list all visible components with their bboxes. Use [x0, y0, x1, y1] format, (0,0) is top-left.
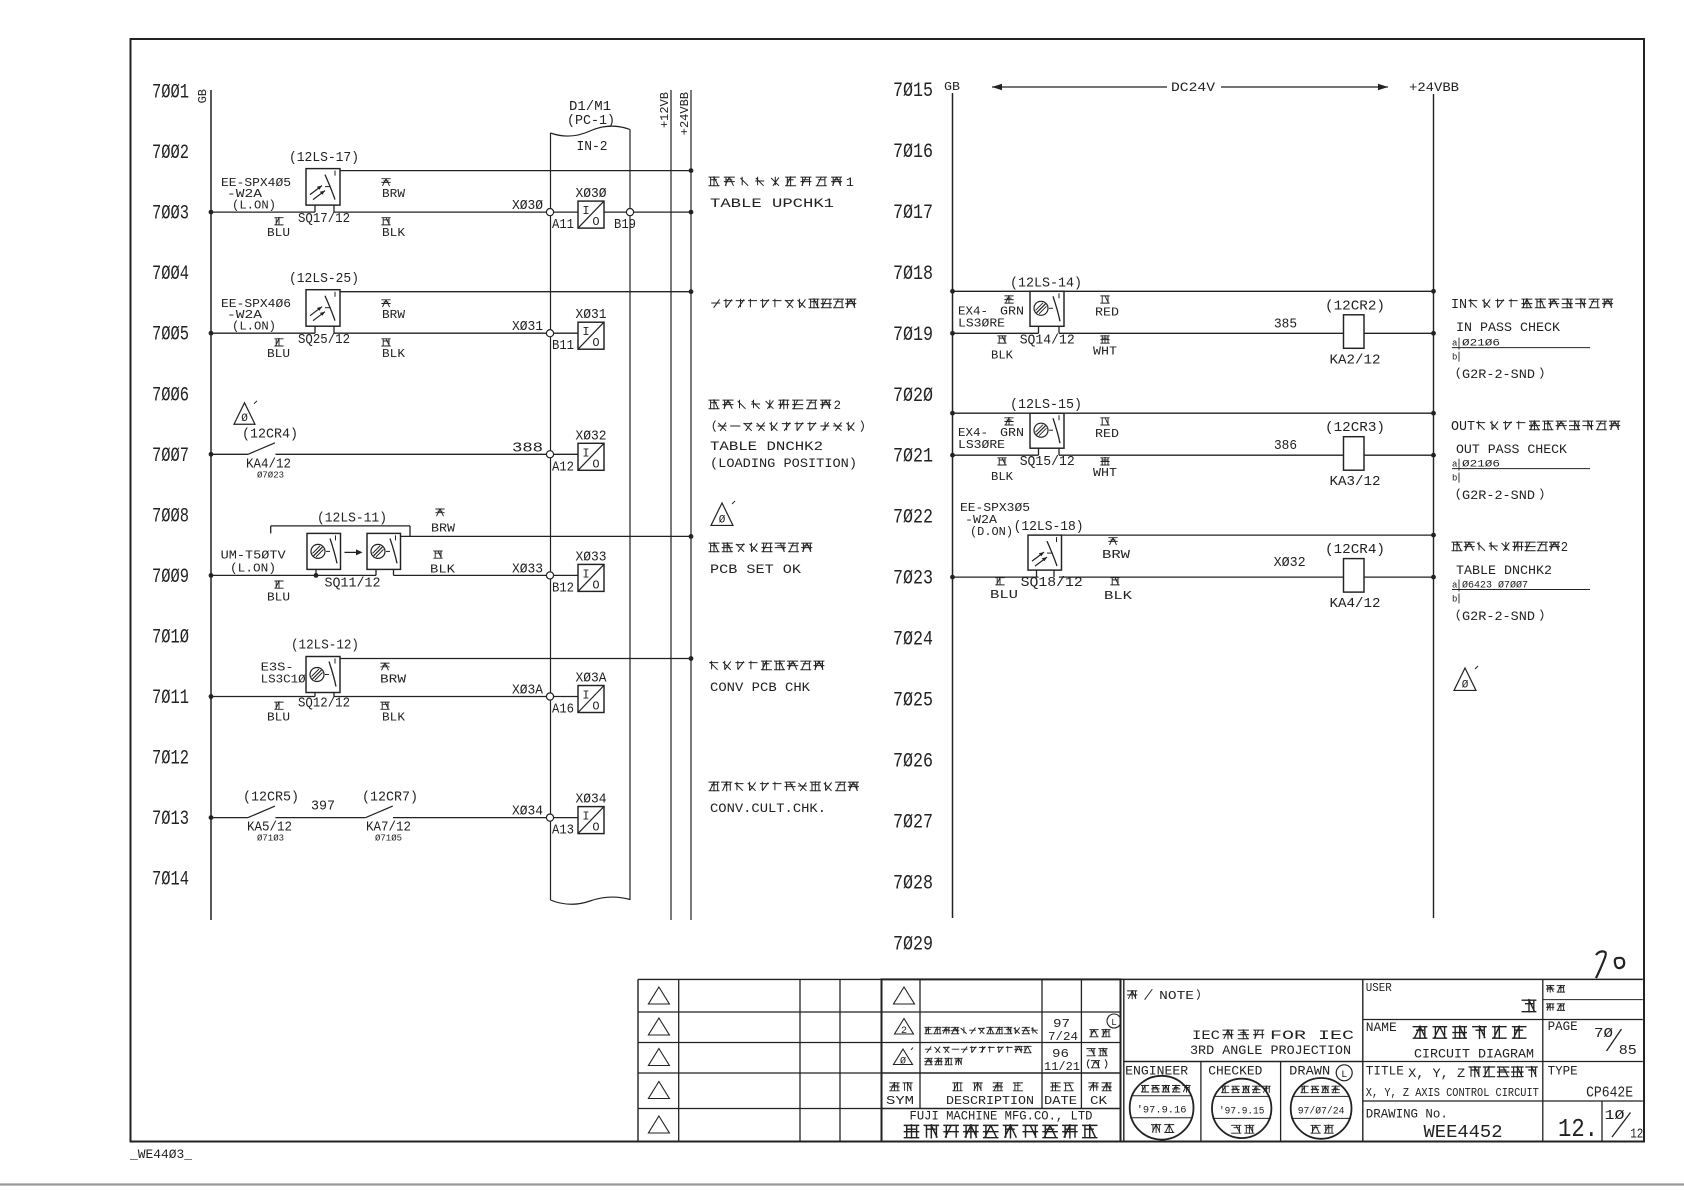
svg-text:(12LS-14): (12LS-14)	[1010, 276, 1082, 291]
svg-text:G2R-2-SND: G2R-2-SND	[1462, 368, 1535, 382]
svg-text:85: 85	[1619, 1043, 1637, 1059]
svg-text:b: b	[1452, 353, 1457, 363]
svg-text:XØ34: XØ34	[576, 793, 607, 808]
svg-text:A16: A16	[552, 703, 574, 718]
rung 7023 upper branch wire	[1062, 534, 1434, 536]
svg-text:XØ31: XØ31	[576, 308, 607, 323]
svg-text:BLU: BLU	[990, 588, 1018, 602]
relay contact 12CR7 KA7/12	[366, 806, 393, 818]
svg-text:G2R-2-SND: G2R-2-SND	[1462, 610, 1535, 624]
svg-text:7Ø15: 7Ø15	[893, 80, 933, 103]
engineer/checked/drawn row	[1200, 1062, 1202, 1142]
svg-text:2: 2	[901, 1026, 907, 1037]
svg-text:7Ø22: 7Ø22	[893, 507, 933, 530]
svg-text:7Ø28: 7Ø28	[893, 872, 933, 895]
svg-text:CP642E: CP642E	[1586, 1086, 1633, 1102]
svg-text:7ØØ1: 7ØØ1	[152, 82, 189, 105]
svg-text:XØ32: XØ32	[576, 429, 607, 444]
svg-text:BRW: BRW	[382, 308, 406, 322]
svg-text:BRW: BRW	[382, 187, 406, 201]
revision table right (SYM/DESCRIPTION)	[882, 979, 1121, 1141]
svg-text:96: 96	[1052, 1047, 1069, 1061]
rung 7011 wire	[209, 694, 214, 699]
svg-text:7Ø25: 7Ø25	[893, 690, 933, 713]
svg-text:'97.9.15: '97.9.15	[1219, 1105, 1264, 1117]
photo sensor 12LS-25 EE-SPX406 (SQ25/12)	[306, 290, 340, 327]
svg-text:I: I	[582, 325, 589, 339]
svg-text:L: L	[1341, 1070, 1347, 1081]
svg-text:GB: GB	[196, 89, 210, 103]
svg-text:(12CR2): (12CR2)	[1325, 299, 1385, 314]
rung 7003 wire	[209, 210, 214, 215]
bus +24VBB wire	[690, 90, 692, 920]
svg-text:TYPE: TYPE	[1548, 1065, 1578, 1079]
svg-text:7ØØ3: 7ØØ3	[152, 203, 189, 226]
svg-text:O: O	[592, 578, 599, 592]
DC24V arrow	[992, 86, 1167, 88]
svg-text:LS3C1Ø: LS3C1Ø	[261, 673, 306, 687]
svg-text:BLU: BLU	[267, 347, 290, 361]
revision row2 triangle 2	[895, 1019, 914, 1035]
svg-text:(12CR7): (12CR7)	[362, 791, 418, 806]
prox sensor 12LS-12 E3S-LS3C10 (SQ12/12)	[306, 657, 340, 693]
user block	[1363, 1019, 1643, 1021]
svg-text:XØ3A: XØ3A	[576, 672, 608, 687]
svg-text:7Ø13: 7Ø13	[152, 808, 189, 831]
svg-text:OUT PASS CHECK: OUT PASS CHECK	[1456, 443, 1568, 457]
desc 7005 backup pin	[711, 298, 856, 308]
svg-text:IEC: IEC	[1192, 1029, 1220, 1043]
desc 7013 CONV.CULT.CHK	[709, 781, 859, 791]
svg-text:3RD ANGLE PROJECTION: 3RD ANGLE PROJECTION	[1190, 1044, 1351, 1058]
svg-text:TABLE UPCHK1: TABLE UPCHK1	[710, 197, 834, 211]
revision row3 triangle 0'	[894, 1049, 913, 1065]
svg-text:7ØØ7: 7ØØ7	[152, 445, 189, 468]
prox sensor 12LS-15 EX4-LS30RE (SQ15/12)	[1030, 413, 1064, 448]
note block	[1121, 978, 1643, 980]
rung 7021 wire	[953, 454, 1039, 456]
svg-text:LS3ØRE: LS3ØRE	[958, 316, 1005, 330]
svg-text:TABLE DNCHK2: TABLE DNCHK2	[710, 440, 823, 454]
svg-text:(L.ON): (L.ON)	[232, 199, 276, 213]
svg-text:(L.ON): (L.ON)	[230, 561, 276, 575]
revision table left (empty)	[638, 978, 881, 980]
revision triangles left table	[648, 987, 669, 1004]
svg-text:388: 388	[512, 441, 543, 456]
svg-text:(12LS-11): (12LS-11)	[317, 511, 387, 526]
svg-text:7Ø29: 7Ø29	[893, 933, 933, 956]
svg-text:I: I	[582, 567, 589, 581]
svg-text:SQ18/12: SQ18/12	[1021, 576, 1083, 591]
svg-text:B19: B19	[614, 218, 636, 233]
svg-text:B12: B12	[552, 581, 574, 596]
svg-text:7Ø19: 7Ø19	[893, 324, 933, 347]
svg-text:USER: USER	[1366, 982, 1392, 995]
svg-text:7ØØ6: 7ØØ6	[152, 384, 189, 407]
right bus GB wire	[952, 93, 954, 918]
svg-text:BLK: BLK	[1104, 589, 1133, 603]
svg-text:12.: 12.	[1558, 1114, 1598, 1144]
svg-text:WHT: WHT	[1093, 344, 1117, 358]
svg-text:DATE: DATE	[1044, 1094, 1077, 1108]
svg-text:WHT: WHT	[1093, 466, 1117, 480]
svg-text:PCB SET OK: PCB SET OK	[710, 563, 802, 577]
svg-text:XØ33: XØ33	[576, 550, 607, 565]
svg-text:XØ3Ø: XØ3Ø	[512, 199, 543, 214]
svg-text:G2R-2-SND: G2R-2-SND	[1462, 489, 1535, 503]
svg-text:CONV PCB CHK: CONV PCB CHK	[710, 681, 811, 695]
svg-text:XØ3Ø: XØ3Ø	[576, 187, 607, 202]
svg-text:386: 386	[1274, 439, 1297, 454]
svg-text:XØ32: XØ32	[1274, 556, 1306, 571]
svg-text:(12LS-18): (12LS-18)	[1014, 520, 1084, 535]
svg-text:Ø: Ø	[241, 413, 248, 425]
svg-text:L: L	[1111, 1018, 1116, 1028]
svg-text:SQ11/12: SQ11/12	[325, 576, 381, 591]
svg-text:SQ12/12: SQ12/12	[298, 697, 350, 712]
svg-text:UM-T5ØTV: UM-T5ØTV	[221, 548, 287, 562]
svg-text:Ø71Ø3: Ø71Ø3	[257, 833, 284, 844]
svg-text:SYM: SYM	[886, 1094, 914, 1108]
sheet number cells	[1601, 1101, 1603, 1142]
svg-text:XØ34: XØ34	[512, 805, 543, 820]
svg-text:7Ø17: 7Ø17	[893, 202, 933, 225]
svg-text:1Ø: 1Ø	[1605, 1109, 1625, 1124]
svg-text:A12: A12	[552, 460, 574, 475]
desc 7011 CONV PCB CHK	[709, 660, 824, 670]
svg-text:CIRCUIT DIAGRAM: CIRCUIT DIAGRAM	[1414, 1048, 1534, 1062]
svg-text:7Ø12: 7Ø12	[152, 748, 189, 771]
svg-text:+24VBB: +24VBB	[1409, 80, 1459, 95]
svg-text:BRW: BRW	[1102, 548, 1131, 562]
svg-text:+12VB: +12VB	[658, 92, 672, 128]
svg-text:A13: A13	[552, 824, 574, 839]
svg-text:7Ø21: 7Ø21	[893, 446, 933, 469]
svg-text:BLK: BLK	[991, 348, 1014, 362]
branch wire 7011 to +24VBB	[340, 658, 691, 660]
bus +12VB wire	[670, 90, 672, 920]
svg-text:7ØØ2: 7ØØ2	[152, 142, 189, 165]
svg-text:TITLE: TITLE	[1366, 1065, 1404, 1079]
svg-text:DRAWN: DRAWN	[1289, 1065, 1330, 1079]
svg-text:7Ø11: 7Ø11	[152, 687, 189, 710]
desc 7009 revision triangle	[711, 503, 733, 525]
svg-text:FUJI MACHINE MFG.CO., LTD: FUJI MACHINE MFG.CO., LTD	[910, 1110, 1093, 1124]
revision row3 text	[925, 1046, 1032, 1053]
revision header row	[889, 1082, 912, 1091]
svg-text:OUT: OUT	[1451, 419, 1475, 435]
svg-text:7Ø: 7Ø	[1594, 1026, 1613, 1042]
svg-text:O: O	[592, 821, 599, 835]
checked stamp	[1212, 1079, 1271, 1138]
svg-text:7Ø14: 7Ø14	[152, 869, 189, 892]
svg-text:7ØØ4: 7ØØ4	[152, 263, 189, 286]
svg-text:I: I	[582, 446, 589, 460]
svg-text:397: 397	[311, 800, 335, 815]
svg-text:2: 2	[1561, 540, 1568, 556]
svg-text:X, Y, Z: X, Y, Z	[1408, 1066, 1465, 1081]
svg-text:CHECKED: CHECKED	[1208, 1065, 1262, 1079]
svg-text:DC24V: DC24V	[1171, 80, 1215, 95]
svg-text:BLU: BLU	[267, 226, 290, 240]
drawn stamp	[1291, 1078, 1352, 1139]
svg-text:I: I	[582, 204, 589, 218]
svg-text:SQ14/12: SQ14/12	[1020, 333, 1075, 348]
svg-text:+24VBB: +24VBB	[678, 92, 692, 135]
svg-text:(LOADING POSITION): (LOADING POSITION)	[710, 457, 857, 471]
class/serial cells	[1542, 979, 1544, 1141]
svg-text:O: O	[592, 700, 599, 714]
svg-text:1: 1	[846, 176, 854, 190]
svg-text:GB: GB	[944, 80, 960, 94]
svg-text:Ø: Ø	[1462, 679, 1469, 691]
svg-text:BLK: BLK	[382, 711, 406, 725]
wire color labels rung 7003	[381, 179, 390, 186]
rung 7009 wire	[209, 573, 214, 578]
svg-text:7Ø24: 7Ø24	[893, 629, 933, 652]
svg-text:CONV.CULT.CHK.: CONV.CULT.CHK.	[710, 802, 826, 816]
svg-text:DRAWING No.: DRAWING No.	[1366, 1108, 1448, 1122]
rung 7005 wire	[209, 331, 214, 336]
rung 7021 upper branch wire	[953, 412, 1434, 414]
arrow between sensor pair	[345, 551, 362, 553]
svg-text:7Ø1Ø: 7Ø1Ø	[152, 626, 189, 649]
svg-text:KA3/12: KA3/12	[1330, 475, 1381, 490]
svg-text:(12CR3): (12CR3)	[1325, 421, 1385, 436]
svg-text:7Ø26: 7Ø26	[893, 750, 933, 773]
svg-text:SQ15/12: SQ15/12	[1020, 455, 1075, 470]
svg-text:IN PASS CHECK: IN PASS CHECK	[1456, 321, 1561, 335]
svg-text:I: I	[582, 689, 589, 703]
svg-text:2: 2	[834, 399, 841, 413]
title block	[1363, 1100, 1643, 1102]
svg-text:(12CR4): (12CR4)	[242, 427, 298, 442]
relay coil 12CR4 KA4/12	[1344, 559, 1365, 593]
wire colors RED/WHT rung 7019	[1100, 296, 1109, 303]
svg-text:BRW: BRW	[380, 673, 407, 687]
svg-text:NOTE: NOTE	[1159, 990, 1194, 1003]
svg-text:NAME: NAME	[1366, 1021, 1397, 1035]
svg-text:11/21: 11/21	[1044, 1060, 1080, 1074]
photo sensor 12LS-17 EE-SPX405 (SQ17/12)	[306, 169, 340, 206]
rung 7023 wire	[953, 576, 1039, 578]
svg-text:BLU: BLU	[267, 711, 290, 725]
svg-text:97/Ø7/24: 97/Ø7/24	[1298, 1105, 1345, 1117]
wire color labels rung 7011	[380, 663, 389, 670]
handwritten page number 70	[1596, 951, 1606, 978]
svg-text:7Ø16: 7Ø16	[893, 141, 933, 164]
svg-text:O: O	[592, 457, 599, 471]
svg-text:KA4/12: KA4/12	[1330, 597, 1381, 612]
photo sensor 12LS-18 EE-SPX305 (SQ18/12)	[1028, 535, 1062, 570]
branch wire 7009 to +24VBB	[401, 535, 692, 537]
svg-text:I: I	[582, 810, 589, 824]
svg-text:(12LS-17): (12LS-17)	[289, 151, 359, 166]
svg-text:(L.ON): (L.ON)	[232, 320, 276, 334]
svg-text:PAGE: PAGE	[1548, 1020, 1578, 1034]
svg-text:12: 12	[1630, 1128, 1643, 1143]
svg-text:FOR IEC: FOR IEC	[1270, 1029, 1354, 1043]
svg-text:(12LS-25): (12LS-25)	[289, 272, 359, 287]
svg-text:7Ø2Ø: 7Ø2Ø	[893, 385, 933, 408]
relay coil 12CR2 KA2/12	[1344, 315, 1365, 349]
svg-text:XØ33: XØ33	[512, 562, 543, 577]
svg-text:SQ25/12: SQ25/12	[298, 333, 350, 348]
prox sensor UM-T50TV unit 1 (SQ11/12)	[307, 533, 341, 569]
desc 7009 PCB SET OK	[709, 542, 813, 552]
svg-text:BRW: BRW	[431, 521, 456, 535]
svg-text:WEE4452: WEE4452	[1424, 1123, 1503, 1143]
engineer stamp	[1130, 1076, 1194, 1140]
svg-text:D1/M1: D1/M1	[569, 100, 611, 115]
svg-text:O: O	[592, 336, 599, 350]
svg-text:BLU: BLU	[267, 590, 290, 604]
svg-text:XØ31: XØ31	[512, 320, 543, 335]
branch wire 7003 to +24VBB	[340, 170, 691, 172]
svg-text:b: b	[1452, 474, 1457, 484]
svg-text:_WE44Ø3_: _WE44Ø3_	[129, 1147, 192, 1162]
svg-text:O: O	[592, 215, 599, 229]
svg-text:7ØØ8: 7ØØ8	[152, 505, 189, 528]
svg-text:(12LS-15): (12LS-15)	[1010, 398, 1082, 413]
svg-text:7ØØ9: 7ØØ9	[152, 566, 189, 589]
svg-text:B11: B11	[552, 339, 574, 354]
svg-text:KA2/12: KA2/12	[1330, 353, 1381, 368]
svg-text:7Ø18: 7Ø18	[893, 263, 933, 286]
svg-text:RED: RED	[1095, 427, 1119, 441]
prox sensor UM-T50TV unit 2	[367, 533, 401, 569]
wire color labels rung 7005	[381, 300, 390, 307]
svg-text:7Ø23: 7Ø23	[893, 568, 933, 591]
svg-text:(12LS-12): (12LS-12)	[291, 639, 359, 654]
relay coil 12CR3 KA3/12	[1344, 437, 1365, 471]
relay contact 12CR4 KA4/12	[248, 443, 275, 455]
prox sensor 12LS-14 EX4-LS30RE (SQ14/12)	[1030, 291, 1064, 326]
revision triangle row1	[894, 987, 915, 1004]
relay contact 12CR5 KA5/12	[248, 806, 275, 818]
svg-text:Ø: Ø	[719, 514, 726, 526]
svg-text:(12CR5): (12CR5)	[243, 791, 299, 806]
svg-text:(12CR4): (12CR4)	[1325, 543, 1385, 558]
svg-text:Ø7Ø23: Ø7Ø23	[257, 469, 284, 480]
right bus +24VBB wire	[1433, 94, 1435, 918]
svg-text:RED: RED	[1095, 305, 1119, 319]
name block	[1363, 1061, 1643, 1063]
svg-text:BLK: BLK	[430, 562, 456, 576]
scan edge line bottom	[0, 1183, 1684, 1185]
svg-text:'97.9.16: '97.9.16	[1137, 1105, 1187, 1117]
svg-text:SQ17/12: SQ17/12	[298, 212, 350, 227]
svg-text:BLK: BLK	[382, 226, 406, 240]
svg-text:XØ3A: XØ3A	[512, 684, 544, 699]
wire colors RED/WHT rung 7021	[1100, 418, 1109, 425]
svg-text:BLK: BLK	[382, 347, 406, 361]
revision row2 text	[924, 1027, 1037, 1035]
svg-text:BLK: BLK	[991, 470, 1014, 484]
svg-text:TABLE DNCHK2: TABLE DNCHK2	[1456, 564, 1552, 578]
svg-text:IN-2: IN-2	[577, 140, 608, 155]
branch wire 7005 to +24VBB	[340, 291, 691, 293]
svg-text:b: b	[1452, 595, 1457, 605]
svg-text:7ØØ5: 7ØØ5	[152, 324, 189, 347]
wire color labels rung 7009	[435, 509, 444, 516]
svg-text:Ø: Ø	[900, 1056, 906, 1068]
rung 7013 wire	[209, 815, 214, 820]
svg-text:IN: IN	[1451, 297, 1467, 313]
rung 7019 wire	[953, 332, 1039, 334]
svg-text:LS3ØRE: LS3ØRE	[958, 438, 1005, 452]
svg-text:X, Y, Z AXIS CONTROL CIRCUIT: X, Y, Z AXIS CONTROL CIRCUIT	[1366, 1087, 1539, 1100]
svg-text:385: 385	[1274, 317, 1297, 332]
svg-text:7Ø27: 7Ø27	[893, 811, 933, 834]
svg-text:(D.ON): (D.ON)	[970, 525, 1013, 539]
svg-text:A11: A11	[552, 218, 574, 233]
rung 7019 upper branch wire	[953, 290, 1434, 292]
svg-text:DESCRIPTION: DESCRIPTION	[946, 1094, 1034, 1108]
left bus GB wire	[210, 90, 212, 920]
svg-text:97: 97	[1053, 1017, 1070, 1031]
svg-text:7/24: 7/24	[1048, 1030, 1078, 1044]
svg-text:CK: CK	[1090, 1094, 1108, 1108]
svg-text:Ø71Ø5: Ø71Ø5	[375, 833, 402, 844]
desc revision triangle right	[1454, 668, 1476, 690]
revision triangle 0' near 12CR4	[234, 403, 255, 424]
rung 7007 wire	[209, 452, 214, 457]
